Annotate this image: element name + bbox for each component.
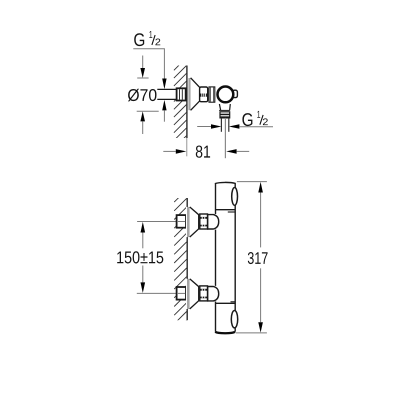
bar clamp upper connection (208, 215, 219, 229)
temperature knob tab (upper view) (233, 90, 238, 97)
bar top cap seam (216, 210, 236, 212)
threaded nipple in wall (177, 88, 186, 100)
dimension 81 (163, 145, 249, 157)
outlet pipe down (221, 118, 228, 158)
dimension 150±15 (117, 222, 163, 293)
ribbed nut upper connection (200, 214, 208, 229)
escutcheon cone (upper view) (191, 78, 200, 111)
ribbed nut lower connection (200, 286, 208, 301)
thermostat bar body (215, 182, 236, 333)
bar bottom cap seam (216, 302, 236, 304)
wall hatching (lower view) (174, 190, 186, 333)
escutcheon flange lower connection (186, 279, 187, 309)
collar before valve body (upper view) (209, 87, 215, 102)
dimension Ø70 (128, 56, 159, 135)
leader line from G 1/2 to inlet nipple (133, 49, 166, 89)
wall hatching (upper view) (174, 58, 187, 149)
threaded nipple lower connection (177, 287, 186, 300)
ribbed connector nut (upper view) (200, 87, 208, 102)
escutcheon cone lower connection (190, 279, 199, 309)
escutcheon flange (upper view) (188, 78, 190, 110)
dimension G 1/2 arrows at outlet pipe (197, 124, 273, 129)
bottom knob ellipse (231, 311, 237, 328)
extension line lower connection (150±15) (137, 292, 177, 294)
escutcheon cone upper connection (190, 207, 199, 237)
valve body circle (upper view) (218, 87, 234, 103)
wall line (upper view) (186, 66, 188, 157)
hose nut (220, 112, 230, 118)
extension line upper connection (150±15) (137, 221, 176, 223)
wall line (lower view) (186, 198, 188, 320)
label G 1/2 top-left (134, 31, 160, 46)
top knob ellipse (232, 188, 238, 206)
threaded nipple upper connection (177, 215, 186, 228)
bar clamp lower connection (208, 287, 219, 301)
supply pipe through wall (157, 89, 186, 100)
escutcheon flange upper connection (186, 207, 187, 237)
outlet neck below valve body (219, 104, 230, 110)
dimension 317 (236, 182, 268, 333)
arrow up to nipple bottom (162, 100, 166, 122)
label G 1/2 right (242, 111, 267, 126)
